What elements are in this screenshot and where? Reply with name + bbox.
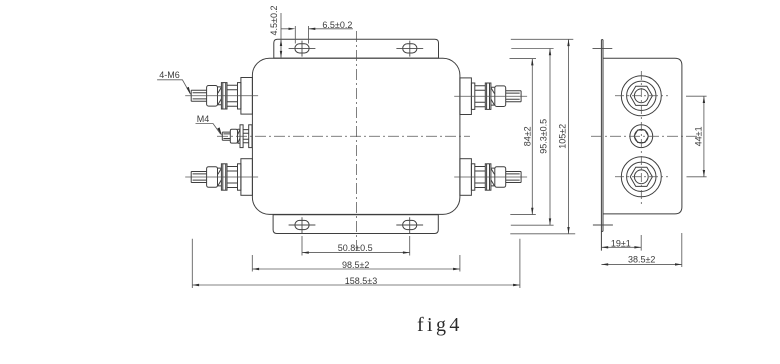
svg-text:4.5±0.2: 4.5±0.2 xyxy=(269,6,279,36)
svg-text:M4: M4 xyxy=(197,114,210,124)
front view body outline xyxy=(252,58,460,214)
side view horizontal centerline middle terminal xyxy=(591,135,698,137)
terminal M4 middle-left xyxy=(222,125,252,148)
arrows 44 xyxy=(703,96,705,103)
arrows 158.5 xyxy=(192,284,199,286)
arrows 105 xyxy=(567,39,569,46)
dimension 38.5 line xyxy=(601,263,681,265)
arrows 6.5 (outside) xyxy=(289,28,296,30)
arrows 4.5 xyxy=(280,39,282,46)
side view terminal bottom (M6) xyxy=(621,157,661,197)
side view top mounting hole centerline tick xyxy=(593,48,613,50)
terminal M6 top-right xyxy=(454,78,527,115)
side view mounting bracket (edge-on plate) xyxy=(601,40,603,251)
svg-text:fig4: fig4 xyxy=(417,314,463,336)
top mounting flange xyxy=(274,39,439,58)
dimension 6.5±0.2 line xyxy=(281,28,353,30)
dimension 84 line xyxy=(531,59,533,215)
side view terminal top (M6) xyxy=(621,76,661,116)
dimension 158.5 extension lines xyxy=(192,239,520,288)
bottom mounting flange xyxy=(273,215,438,234)
svg-text:38.5±2: 38.5±2 xyxy=(628,255,655,265)
svg-text:44±1: 44±1 xyxy=(693,126,703,146)
side view horizontal centerline bottom terminal xyxy=(615,176,668,178)
arrows 19 xyxy=(601,246,608,248)
side view bottom mounting hole centerline tick xyxy=(593,224,613,226)
dimension 44 extension lines xyxy=(686,96,707,177)
dimension 98.5 extension lines xyxy=(252,255,460,272)
dimension 98.5 line xyxy=(252,268,460,270)
dimension 19 extension line xyxy=(640,235,642,251)
slot hole bottom-right xyxy=(396,217,423,233)
dimension 95.3 extension lines xyxy=(511,49,554,226)
dimension 50.8 extension lines xyxy=(302,236,410,256)
svg-text:4-M6: 4-M6 xyxy=(159,70,180,80)
arrows 50.8 xyxy=(302,251,309,253)
terminal M6 bottom-left xyxy=(185,159,258,196)
dimension 105 extension lines xyxy=(510,39,575,234)
dimension 50.8 line xyxy=(302,252,410,254)
dimension 4.5±0.2 line xyxy=(280,13,282,58)
slot hole top-right xyxy=(396,41,423,57)
dimension 6.5±0.2 extension lines xyxy=(295,26,308,44)
arrow leader 4-M6 xyxy=(187,87,192,96)
vertical centerline of front view xyxy=(356,31,358,252)
svg-text:6.5±0.2: 6.5±0.2 xyxy=(322,20,352,30)
svg-text:84±2: 84±2 xyxy=(523,126,533,146)
dimension 95.3 line xyxy=(549,49,551,226)
dimension 105 line xyxy=(568,39,570,234)
label M4 leader xyxy=(196,124,221,135)
side view vertical centerline xyxy=(640,71,642,205)
terminal M6 top-left xyxy=(185,78,258,115)
arrow leader M4 xyxy=(217,127,222,135)
dimension 84 extension lines xyxy=(510,59,537,215)
slot hole top-left xyxy=(289,41,316,57)
svg-text:50.8±0.5: 50.8±0.5 xyxy=(338,243,373,253)
arrows 95.3 xyxy=(549,49,551,56)
side view horizontal centerline top terminal xyxy=(615,95,668,97)
arrows 84 xyxy=(531,59,533,66)
arrows 38.5 xyxy=(601,263,608,265)
horizontal centerline mid (M4 axis) xyxy=(217,135,470,137)
svg-text:95.3±0.5: 95.3±0.5 xyxy=(539,119,549,154)
slot hole bottom-left xyxy=(289,217,316,233)
svg-text:19±1: 19±1 xyxy=(611,239,631,249)
dimension 44 line xyxy=(703,96,705,177)
dimension 158.5 line xyxy=(192,284,520,286)
svg-text:105±2: 105±2 xyxy=(558,124,568,149)
dimension 19 line xyxy=(601,246,641,248)
svg-text:158.5±3: 158.5±3 xyxy=(345,276,377,286)
dimension 38.5 extension line xyxy=(681,233,683,267)
side view terminal middle (M4) xyxy=(630,125,653,148)
terminal M6 bottom-right xyxy=(454,159,527,196)
svg-text:98.5±2: 98.5±2 xyxy=(342,260,369,270)
arrows 98.5 xyxy=(252,268,259,270)
side view body outline xyxy=(603,58,682,214)
label 4-M6 leader xyxy=(157,80,190,94)
